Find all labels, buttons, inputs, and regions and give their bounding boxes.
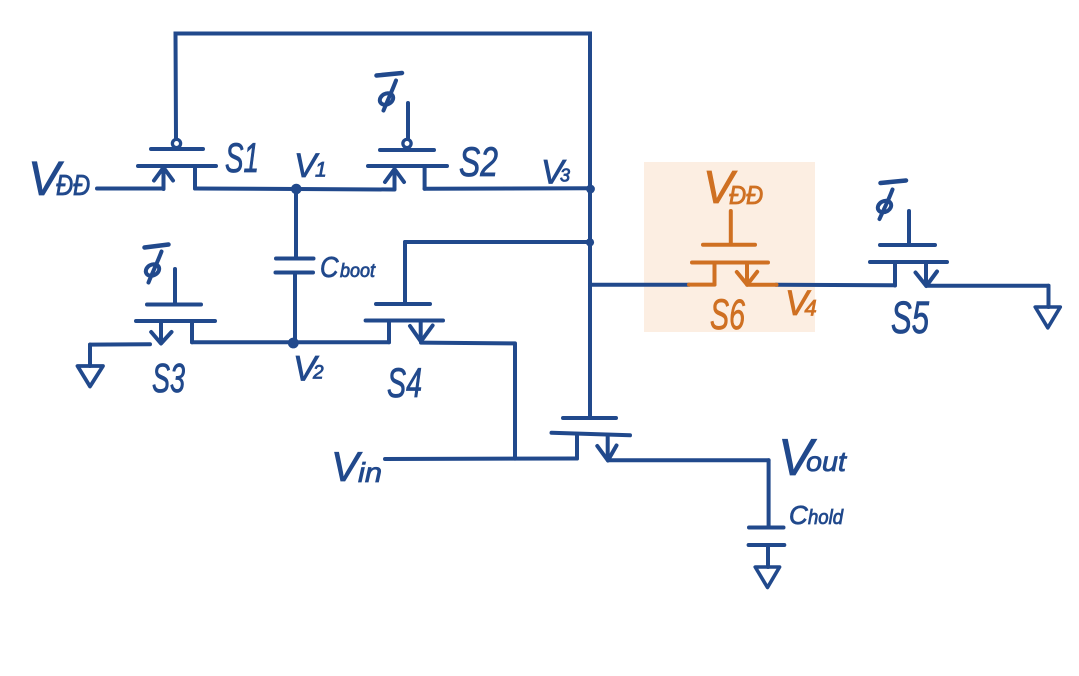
svg-text:in: in bbox=[358, 457, 382, 488]
svg-text:hold: hold bbox=[808, 507, 844, 529]
svg-text:S4: S4 bbox=[387, 359, 422, 406]
svg-text:2: 2 bbox=[312, 363, 324, 384]
svg-text:C: C bbox=[320, 252, 339, 284]
svg-text:ĐĐ: ĐĐ bbox=[729, 180, 763, 210]
svg-text:out: out bbox=[806, 446, 847, 477]
svg-text:ĐĐ: ĐĐ bbox=[56, 170, 90, 202]
svg-text:S2: S2 bbox=[459, 138, 498, 185]
svg-text:boot: boot bbox=[340, 260, 376, 282]
svg-text:C: C bbox=[789, 500, 808, 530]
svg-text:S3: S3 bbox=[152, 355, 185, 401]
svg-text:S6: S6 bbox=[710, 291, 745, 339]
svg-text:1: 1 bbox=[315, 159, 327, 182]
svg-text:4: 4 bbox=[805, 296, 817, 321]
svg-text:3: 3 bbox=[560, 166, 570, 186]
svg-text:S5: S5 bbox=[891, 292, 930, 343]
svg-text:S1: S1 bbox=[225, 134, 259, 181]
